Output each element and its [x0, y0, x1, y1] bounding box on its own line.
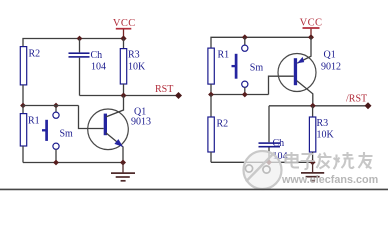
- node: VCC / R3 junction: [120, 35, 126, 41]
- svg-text:9013: 9013: [131, 116, 151, 127]
- collector line: [106, 96, 124, 117]
- node B junction (switch bottom): [242, 92, 248, 98]
- resistor R3 (right): [309, 106, 334, 163]
- transistor Q1 9013 (NPN): [88, 96, 151, 163]
- 电: [286, 152, 300, 168]
- svg-text:VCC: VCC: [113, 18, 136, 29]
- switch Sm (left): [42, 106, 73, 163]
- wire node B: [211, 94, 269, 96]
- ground (right): [301, 162, 324, 180]
- svg-text:Ch: Ch: [91, 50, 103, 61]
- collector line: [297, 81, 313, 106]
- capacitor C (Ch) leads: [79, 39, 81, 53]
- wire RST net: [80, 95, 179, 97]
- power VCC (right): [300, 17, 323, 37]
- svg-text:Sm: Sm: [250, 63, 264, 74]
- node: VCC / emitter junction: [308, 34, 314, 40]
- resistor R2: [20, 47, 40, 85]
- transistor Q1 9012 (PNP): [278, 37, 341, 106]
- node B junction (R1/R2): [208, 92, 214, 98]
- svg-text:R3: R3: [317, 118, 329, 129]
- watermark chinese glyphs (stylized): [286, 152, 373, 169]
- switch Sm (right): [232, 37, 264, 94]
- node: emitter/ground junction: [120, 160, 126, 166]
- resistor R1 (right): [208, 48, 229, 94]
- resistor R2 (right): [208, 95, 228, 163]
- node A junction (R2/R1): [20, 103, 26, 109]
- svg-text:Sm: Sm: [60, 129, 74, 140]
- watermark logo circle: [244, 151, 282, 189]
- emitter arrow: [114, 139, 123, 147]
- wire /RST net: [269, 105, 368, 107]
- wire top rail (right): [211, 37, 311, 48]
- resistor R3: [120, 39, 146, 96]
- node: switch bottom junction: [53, 160, 59, 166]
- node: switch top junction: [242, 34, 248, 40]
- svg-text:Q1: Q1: [324, 50, 336, 61]
- node: cap top junction: [77, 36, 83, 42]
- wire bottom rail (right): [211, 161, 313, 163]
- wire cap bottom to RST line: [79, 58, 81, 96]
- resistor R1: [20, 106, 39, 163]
- svg-text:R3: R3: [128, 49, 140, 60]
- svg-text:RST: RST: [155, 84, 173, 95]
- wire R2 bottom to node A: [22, 85, 24, 106]
- emitter line: [297, 37, 311, 63]
- 友: [359, 152, 373, 169]
- port /RST terminal dot: [365, 102, 372, 109]
- node A junction (switch top): [53, 103, 59, 109]
- capacitor Ch plates: [69, 50, 107, 72]
- port RST terminal dot: [175, 92, 182, 99]
- svg-text:9012: 9012: [321, 62, 341, 73]
- svg-text:/RST: /RST: [346, 94, 367, 105]
- svg-text:R2: R2: [217, 119, 229, 130]
- emitter line: [106, 133, 123, 163]
- 发: [317, 153, 332, 169]
- svg-text:Ch: Ch: [273, 138, 285, 149]
- 烧: [334, 152, 355, 169]
- svg-text:R2: R2: [29, 49, 41, 60]
- 子: [301, 154, 315, 169]
- svg-text:R1: R1: [28, 116, 40, 127]
- wire bottom rail (left): [23, 162, 123, 164]
- ground (left): [111, 163, 135, 181]
- capacitor Ch plates (right): [259, 138, 288, 162]
- wire node B up to base: [269, 76, 294, 94]
- svg-text:104: 104: [91, 62, 106, 73]
- bottom border line: [0, 188, 388, 190]
- capacitor Ch (right) leads: [268, 106, 270, 143]
- power VCC (left): [113, 18, 136, 39]
- node RST / collector junction: [121, 93, 127, 99]
- svg-text:R1: R1: [218, 50, 230, 61]
- node: cap bottom junction: [266, 159, 272, 165]
- svg-text:10K: 10K: [317, 130, 335, 141]
- wire jog down to base: [79, 106, 104, 129]
- node /RST collector junction: [310, 103, 316, 109]
- node: R3/ground junction: [310, 159, 316, 165]
- svg-text:www.elecfans.com: www.elecfans.com: [281, 174, 378, 186]
- svg-text:10K: 10K: [128, 61, 146, 72]
- wire node A: [23, 105, 79, 107]
- wire top rail (left): [23, 39, 124, 47]
- svg-text:VCC: VCC: [300, 17, 323, 28]
- emitter arrow: [297, 57, 304, 63]
